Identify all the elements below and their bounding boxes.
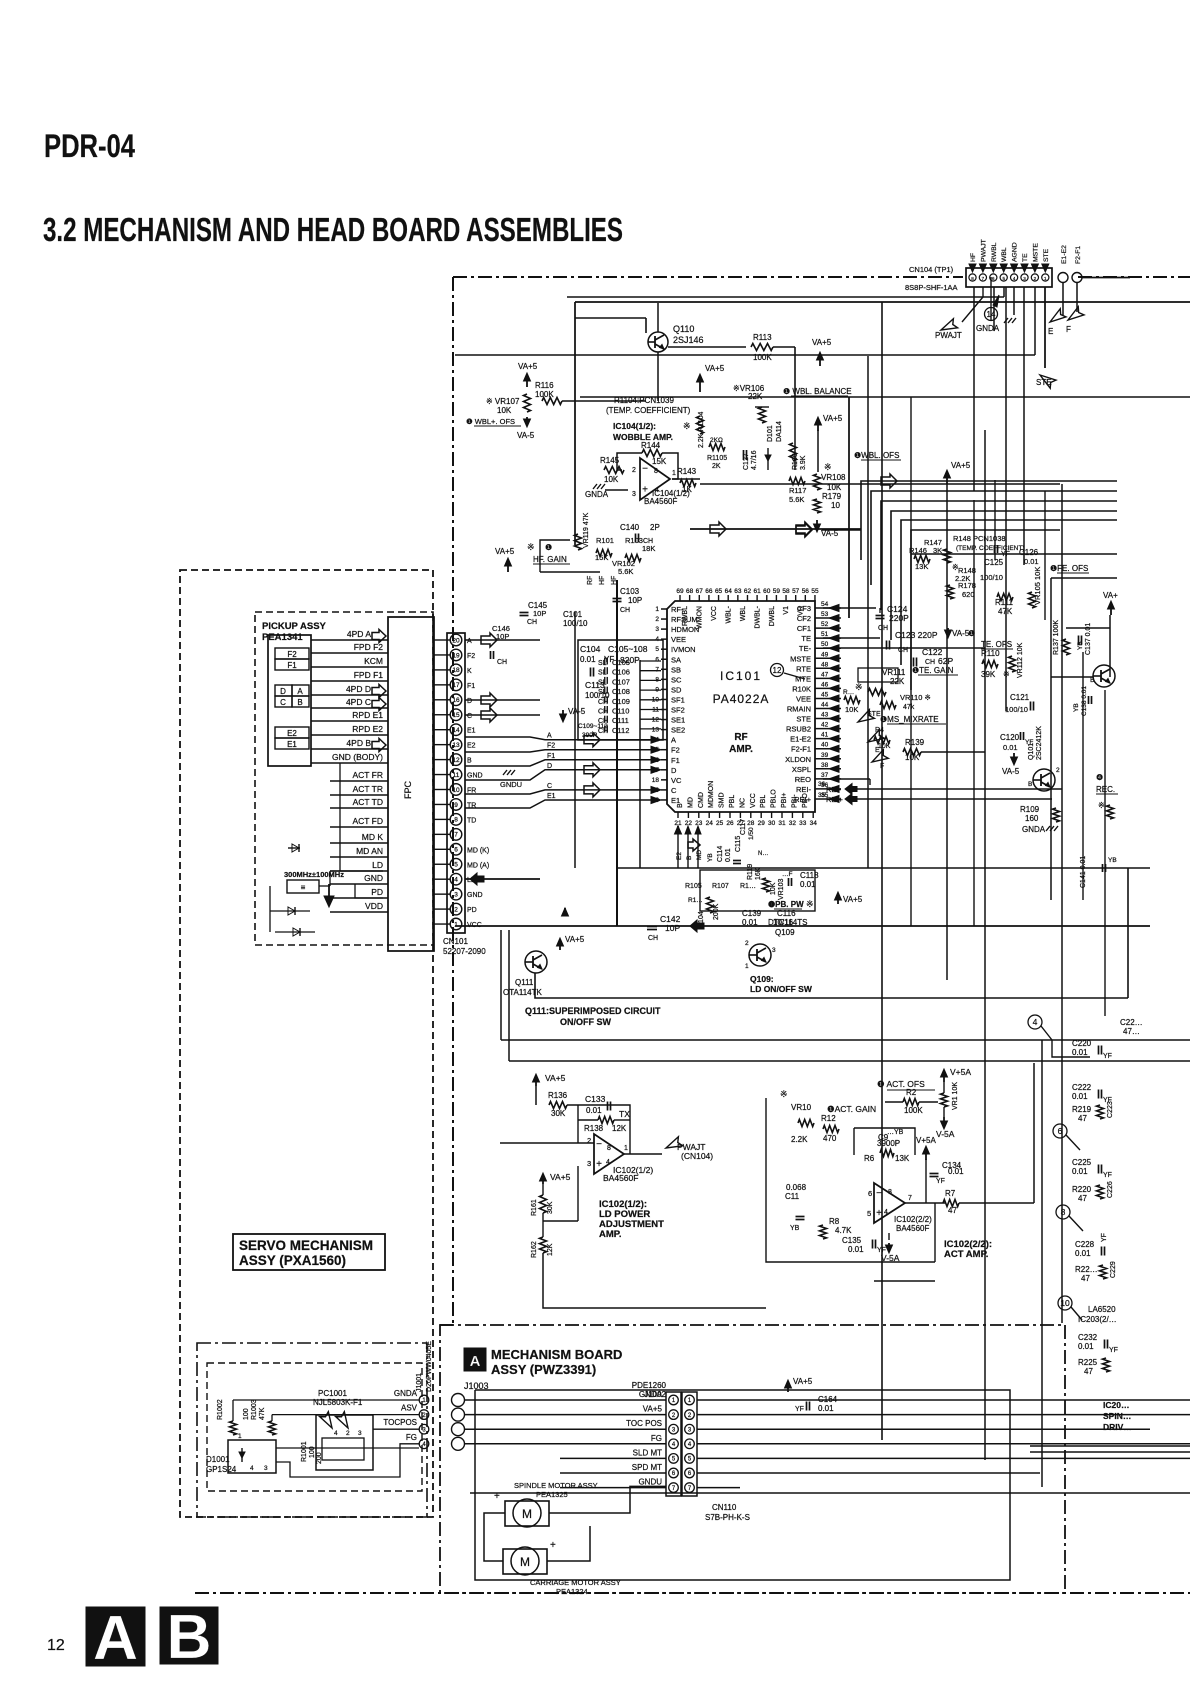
connector CN101 pin 4 circle bbox=[450, 873, 462, 885]
svg-text:64: 64 bbox=[725, 588, 733, 595]
svg-text:C111: C111 bbox=[612, 716, 629, 725]
pin 7 SB (IC101 left) bbox=[661, 668, 667, 670]
svg-text:C140: C140 bbox=[620, 523, 640, 532]
servo inner dash-dot box (opto area) bbox=[197, 1343, 427, 1517]
svg-text:56: 56 bbox=[802, 588, 810, 595]
svg-text:0.01: 0.01 bbox=[580, 655, 596, 664]
connector J1002 pin 7 circle col1 bbox=[669, 1483, 679, 1493]
svg-text:10K: 10K bbox=[770, 882, 777, 895]
transistor Q102 right bbox=[1093, 665, 1115, 687]
svg-text:R110: R110 bbox=[981, 649, 1000, 658]
svg-text:❶ WBL+. OFS: ❶ WBL+. OFS bbox=[466, 417, 515, 426]
svg-text:C116: C116 bbox=[777, 909, 796, 918]
marker B black box bbox=[160, 1607, 218, 1664]
svg-text:F2: F2 bbox=[547, 743, 555, 750]
svg-text:B: B bbox=[1028, 781, 1032, 788]
vertical bus x1045b bbox=[1044, 491, 1046, 620]
FPC box bbox=[388, 617, 434, 951]
svg-text:NC: NC bbox=[739, 798, 746, 808]
wire FPC to CN101 pin 7 bbox=[434, 833, 450, 835]
svg-text:F2: F2 bbox=[287, 650, 297, 659]
svg-text:R225: R225 bbox=[1078, 1358, 1098, 1367]
svg-text:A: A bbox=[547, 733, 552, 740]
svg-text:13: 13 bbox=[652, 727, 660, 734]
svg-text:0.01: 0.01 bbox=[1003, 743, 1018, 752]
svg-text:+: + bbox=[550, 1540, 556, 1551]
svg-text:14: 14 bbox=[452, 727, 460, 734]
svg-text:R138: R138 bbox=[584, 1124, 604, 1133]
svg-text:R179: R179 bbox=[822, 492, 842, 501]
resistor cluster R105 R107 R108 bbox=[689, 929, 691, 931]
vertical bus x1042 bbox=[1041, 1040, 1043, 1487]
svg-text:PA4022A: PA4022A bbox=[713, 692, 770, 706]
svg-text:R148 PCN1038: R148 PCN1038 bbox=[953, 534, 1006, 543]
svg-text:R162: R162 bbox=[531, 1241, 538, 1258]
connector CN104 pin 7 circle bbox=[979, 274, 986, 281]
svg-text:18: 18 bbox=[652, 777, 660, 784]
pin 17 D (IC101 left) bbox=[661, 769, 667, 771]
resistor R137 vertical bbox=[1063, 639, 1070, 655]
connector CN104 pin 2 circle bbox=[1031, 274, 1038, 281]
optocoupler D1001 box bbox=[228, 1440, 276, 1473]
svg-text:1/50: 1/50 bbox=[748, 827, 755, 840]
svg-text:7: 7 bbox=[655, 666, 659, 673]
svg-text:VA+5: VA+5 bbox=[565, 935, 585, 944]
pin 18 VC (IC101 left) bbox=[661, 779, 667, 781]
connector CN104 pin 6 test point triangle bbox=[990, 264, 997, 272]
svg-text:10P: 10P bbox=[665, 923, 680, 933]
svg-text:BA4560F: BA4560F bbox=[644, 497, 677, 506]
svg-text:12: 12 bbox=[773, 666, 782, 675]
svg-text:B: B bbox=[1090, 677, 1095, 684]
pin 16 F1 (IC101 left) bbox=[661, 759, 667, 761]
svg-text:12: 12 bbox=[47, 1637, 65, 1654]
svg-text:11: 11 bbox=[453, 772, 460, 779]
svg-text:※: ※ bbox=[780, 1089, 788, 1099]
svg-text:45: 45 bbox=[821, 691, 829, 698]
svg-text:−: − bbox=[596, 1139, 602, 1150]
caps block outline bbox=[578, 640, 663, 740]
svg-text:ASV: ASV bbox=[401, 1404, 418, 1413]
svg-text:J1003: J1003 bbox=[464, 1381, 489, 1391]
wire CN104 pin6 down bbox=[993, 287, 995, 331]
svg-text:R144: R144 bbox=[641, 441, 661, 450]
svg-text:5: 5 bbox=[655, 646, 659, 653]
power VA+5 up arrow x565 bbox=[564, 908, 566, 912]
svg-text:R161: R161 bbox=[531, 1199, 538, 1216]
svg-text:PWAJT: PWAJT bbox=[935, 331, 962, 340]
svg-text:20: 20 bbox=[452, 637, 460, 644]
svg-text:48: 48 bbox=[821, 661, 829, 668]
wire act box bbox=[766, 1098, 935, 1262]
svg-text:53: 53 bbox=[821, 611, 829, 618]
svg-text:R220: R220 bbox=[1072, 1185, 1092, 1194]
FE sub-box corner bbox=[1051, 577, 1117, 579]
svg-text:F2: F2 bbox=[467, 653, 475, 660]
connector J1002 pin 5 circle col1 bbox=[669, 1454, 679, 1464]
svg-text:59: 59 bbox=[773, 588, 781, 595]
servo inner dashed box (opto area) bbox=[207, 1363, 422, 1491]
power V+5A arrow bbox=[943, 1073, 945, 1082]
svg-text:C11: C11 bbox=[785, 1192, 800, 1201]
open arrow pin16 D bbox=[465, 699, 540, 701]
vertical bus x575 bbox=[574, 612, 576, 868]
transistor Q101 bbox=[1033, 769, 1055, 791]
svg-text:❹: ❹ bbox=[1096, 773, 1103, 782]
svg-text:Q110: Q110 bbox=[673, 324, 694, 334]
svg-text:R1105: R1105 bbox=[707, 455, 727, 462]
svg-text:D: D bbox=[671, 766, 677, 775]
svg-text:C110: C110 bbox=[612, 707, 629, 716]
svg-text:2: 2 bbox=[454, 906, 458, 913]
svg-text:3.9K: 3.9K bbox=[800, 455, 807, 470]
svg-text:※: ※ bbox=[527, 542, 535, 552]
svg-text:0.01: 0.01 bbox=[1078, 1342, 1094, 1351]
svg-text:C223: C223 bbox=[1107, 1101, 1114, 1118]
resistor R113 bbox=[751, 344, 773, 351]
svg-text:VR111: VR111 bbox=[882, 668, 906, 677]
svg-text:C113: C113 bbox=[585, 680, 605, 690]
wire FPC to CN101 pin 10 bbox=[434, 789, 450, 791]
connector CN104 aux circle E1-E2 bbox=[1058, 273, 1068, 283]
svg-text:MD (K): MD (K) bbox=[467, 847, 489, 854]
connector J1001 pin 3 circle bbox=[419, 1424, 429, 1434]
connector CN101 pin 8 circle bbox=[450, 814, 462, 826]
opto arrows bbox=[320, 1412, 337, 1431]
wire pickup signal KCM bbox=[311, 666, 388, 668]
svg-text:GND: GND bbox=[467, 773, 483, 780]
open arrow on 4PD C bbox=[372, 698, 386, 711]
vertical bus x882 bbox=[881, 302, 883, 1440]
svg-text:34: 34 bbox=[810, 820, 818, 827]
svg-text:D: D bbox=[547, 763, 552, 770]
svg-text:62: 62 bbox=[744, 588, 752, 595]
connector J1002 pin 4 circle col2 bbox=[685, 1439, 695, 1449]
wire pickup signal ACT TR bbox=[330, 794, 388, 796]
wire long y1061 bbox=[508, 930, 510, 1061]
svg-text:42: 42 bbox=[821, 722, 829, 729]
svg-text:YB: YB bbox=[1073, 703, 1080, 712]
node 14 circle bbox=[985, 308, 998, 321]
svg-text:GNDA: GNDA bbox=[585, 490, 609, 499]
svg-text:35: 35 bbox=[818, 792, 826, 799]
svg-text:+: + bbox=[876, 1208, 882, 1219]
svg-text:19: 19 bbox=[452, 652, 460, 659]
pin 67 (IC101 top) bbox=[698, 595, 700, 601]
svg-text:61: 61 bbox=[754, 588, 762, 595]
photodiode table E2/E1 bbox=[275, 727, 309, 738]
vertical bus x868 bbox=[867, 356, 869, 868]
svg-text:S7B-PH-K-S: S7B-PH-K-S bbox=[705, 1513, 750, 1522]
power VA+5 arrow (right of D101) bbox=[819, 356, 821, 366]
svg-text:GNDA: GNDA bbox=[639, 1390, 663, 1399]
svg-text:5: 5 bbox=[454, 862, 458, 869]
pin 1 RF- (IC101 left) bbox=[661, 608, 667, 610]
servo mechanism assy dashed box bbox=[180, 570, 433, 1517]
svg-text:33: 33 bbox=[799, 820, 807, 827]
svg-text:3: 3 bbox=[264, 1465, 268, 1472]
connector CN104 pin 8 test point triangle bbox=[969, 264, 976, 272]
svg-text:C220: C220 bbox=[1072, 1039, 1092, 1048]
connector CN104 pin 2 test point triangle bbox=[1031, 264, 1038, 272]
svg-text:13K: 13K bbox=[895, 1154, 910, 1163]
resistor R143 bbox=[680, 480, 696, 487]
svg-text:※: ※ bbox=[855, 682, 863, 692]
svg-text:N…: N… bbox=[758, 851, 768, 857]
connector CN101 pin 13 circle bbox=[450, 739, 462, 751]
photodiode table F2/F1 bbox=[275, 648, 309, 659]
svg-text:R2: R2 bbox=[906, 1088, 917, 1097]
svg-text:※: ※ bbox=[1003, 670, 1010, 679]
wire FPC to CN101 pin 8 bbox=[434, 818, 450, 820]
svg-text:C109~112: C109~112 bbox=[578, 723, 608, 730]
pin 51 TE (IC101 right) bbox=[815, 637, 841, 639]
svg-text:13: 13 bbox=[452, 742, 460, 749]
svg-text:2SJ146: 2SJ146 bbox=[673, 335, 704, 345]
pickup internal wires bbox=[340, 763, 383, 871]
connector J1002 pin 1 circle col1 bbox=[669, 1395, 679, 1405]
svg-text:Q111:SUPERIMPOSED CIRCUIT: Q111:SUPERIMPOSED CIRCUIT bbox=[525, 1006, 661, 1016]
svg-text:GND (BODY): GND (BODY) bbox=[332, 752, 383, 762]
svg-text:R116: R116 bbox=[535, 381, 554, 390]
solid down arrow pickup bbox=[328, 884, 330, 898]
wire FPC to CN101 pin 12 bbox=[434, 759, 450, 761]
svg-text:※: ※ bbox=[683, 421, 691, 431]
pin 22 (IC101 bottom) bbox=[687, 812, 689, 818]
svg-text:VR105 10K: VR105 10K bbox=[1033, 567, 1042, 605]
svg-text:V+5A: V+5A bbox=[950, 1067, 971, 1077]
wires J1002 right bbox=[697, 1399, 1190, 1401]
connector J1002 box col2 bbox=[682, 1392, 697, 1496]
mechanism inner solid box bbox=[475, 1390, 1010, 1580]
svg-text:SLD MT: SLD MT bbox=[633, 1448, 662, 1457]
svg-text:VA+5: VA+5 bbox=[518, 362, 538, 371]
wire pickup signal MD AN bbox=[330, 856, 388, 858]
connector J1002 pin 4 circle col1 bbox=[669, 1439, 679, 1449]
connector CN104 pin 5 circle bbox=[1000, 274, 1007, 281]
node PWAJT open arrow bbox=[939, 319, 958, 335]
svg-text:C120: C120 bbox=[1000, 733, 1020, 742]
pin 31 (IC101 bottom) bbox=[781, 812, 783, 818]
svg-text:C106: C106 bbox=[612, 668, 630, 677]
pin 42 RSUB2 (IC101 right) bbox=[815, 728, 841, 730]
svg-text:SB: SB bbox=[671, 665, 681, 674]
wire mech row VA+5 bbox=[465, 1414, 666, 1416]
connector CN101 pin 9 circle bbox=[450, 799, 462, 811]
svg-text:200: 200 bbox=[316, 1452, 323, 1464]
svg-text:IC102(2/2): IC102(2/2) bbox=[894, 1215, 932, 1224]
svg-text:VR110 ※: VR110 ※ bbox=[900, 693, 931, 702]
svg-text:0.01: 0.01 bbox=[1072, 1092, 1088, 1101]
wire pickup signal FPD F1 bbox=[311, 680, 388, 682]
svg-text:C108: C108 bbox=[612, 687, 630, 696]
svg-text:CN104 (TP1): CN104 (TP1) bbox=[909, 265, 954, 274]
wire FPC to CN101 pin 14 bbox=[434, 729, 450, 731]
vertical bus x1062 bbox=[1061, 484, 1063, 1323]
power VA+5 arrow (wobble) bbox=[699, 378, 701, 392]
svg-text:C138 0.01: C138 0.01 bbox=[1081, 686, 1088, 716]
svg-text:VA+5: VA+5 bbox=[495, 547, 515, 556]
connector J1002 pin 2 circle col1 bbox=[669, 1410, 679, 1420]
svg-text:❶TE. GAIN: ❶TE. GAIN bbox=[912, 666, 954, 675]
svg-text:ASSY (PWZ3391): ASSY (PWZ3391) bbox=[491, 1362, 596, 1377]
svg-text:R117: R117 bbox=[789, 486, 806, 495]
connector CN101 pin 15 circle bbox=[450, 709, 462, 721]
connector CN101 pin 14 circle bbox=[450, 724, 462, 736]
wire FPC to CN101 pin 6 bbox=[434, 848, 450, 850]
svg-text:Q101: Q101 bbox=[1028, 743, 1035, 760]
pin 56 (IC101 top) bbox=[804, 595, 806, 601]
svg-text:SE1: SE1 bbox=[671, 716, 685, 725]
svg-text:VEE: VEE bbox=[671, 635, 686, 644]
svg-text:PDE1260: PDE1260 bbox=[632, 1381, 667, 1390]
svg-text:F2-F1: F2-F1 bbox=[1075, 246, 1082, 264]
svg-text:R109: R109 bbox=[1020, 805, 1040, 814]
svg-text:4: 4 bbox=[884, 1209, 888, 1216]
svg-text:1: 1 bbox=[745, 963, 749, 970]
pin 29 (IC101 bottom) bbox=[760, 812, 762, 818]
pin 5 IVMON (IC101 left) bbox=[661, 648, 667, 650]
wire MTE from 12 bbox=[784, 673, 805, 679]
svg-text:C105~108: C105~108 bbox=[608, 644, 648, 654]
svg-text:7: 7 bbox=[454, 832, 458, 839]
svg-text:RWBL: RWBL bbox=[991, 242, 998, 262]
svg-text:TD: TD bbox=[467, 817, 476, 824]
svg-text:FPD F2: FPD F2 bbox=[354, 642, 384, 652]
wire mech row GNDU bbox=[560, 1487, 666, 1489]
svg-text:F2: F2 bbox=[671, 746, 680, 755]
svg-text:DWBL: DWBL bbox=[769, 606, 776, 626]
connector J1002 pin 3 circle col2 bbox=[685, 1424, 695, 1434]
connector CN104 pin 4 circle bbox=[1011, 274, 1018, 281]
photo IC inner box bbox=[322, 1438, 364, 1460]
svg-text:PC1001: PC1001 bbox=[318, 1389, 347, 1398]
pin 27 (IC101 bottom) bbox=[739, 812, 741, 818]
connector CN104 pin 3 circle bbox=[1021, 274, 1028, 281]
wire mech row SPD MT bbox=[560, 1472, 666, 1474]
svg-text:FG: FG bbox=[406, 1433, 417, 1442]
svg-text:RF: RF bbox=[587, 576, 594, 585]
svg-text:17: 17 bbox=[452, 682, 460, 689]
svg-text:C109: C109 bbox=[612, 697, 630, 706]
svg-text:40: 40 bbox=[821, 742, 829, 749]
wire box left down bbox=[574, 302, 576, 480]
svg-text:C228: C228 bbox=[1075, 1240, 1095, 1249]
svg-text:18: 18 bbox=[452, 667, 460, 674]
svg-text:15: 15 bbox=[452, 712, 460, 719]
power VA-5 arrow (VR107) bbox=[526, 417, 528, 423]
svg-text:A: A bbox=[467, 638, 472, 645]
pin 25 (IC101 bottom) bbox=[719, 812, 721, 818]
wire pickup signal 4PD A bbox=[311, 639, 388, 641]
svg-text:62P: 62P bbox=[938, 656, 953, 666]
svg-text:2KΩ: 2KΩ bbox=[710, 437, 723, 444]
wire RSUB2 long right bbox=[921, 751, 985, 753]
pin 2 RFSUM (IC101 left) bbox=[661, 618, 667, 620]
connector J1002 pin 2 circle col2 bbox=[685, 1410, 695, 1420]
svg-text:GP1S24: GP1S24 bbox=[206, 1465, 237, 1474]
svg-text:10K: 10K bbox=[604, 475, 619, 484]
svg-text:C: C bbox=[280, 698, 286, 707]
wire pickup signal ACT TD bbox=[330, 807, 388, 809]
svg-text:…F: …F bbox=[782, 871, 793, 878]
svg-text:30K: 30K bbox=[551, 1109, 566, 1118]
svg-text:2P: 2P bbox=[650, 523, 660, 532]
svg-text:SA: SA bbox=[671, 655, 681, 664]
head board assy dash-dot border left bbox=[452, 277, 454, 1325]
wire Q109 box bbox=[535, 973, 1128, 998]
svg-text:+: + bbox=[596, 1159, 602, 1170]
svg-text:RPD E2: RPD E2 bbox=[352, 724, 383, 734]
svg-text:V1: V1 bbox=[783, 606, 790, 615]
svg-text:F2-F1: F2-F1 bbox=[791, 745, 811, 754]
open arrow pin20 A bbox=[465, 639, 540, 641]
svg-text:E1: E1 bbox=[547, 793, 556, 800]
wire E1-E2 circle down bbox=[1062, 283, 1064, 315]
svg-text:C114: C114 bbox=[717, 846, 724, 862]
svg-text:VC: VC bbox=[671, 776, 682, 785]
svg-text:C104: C104 bbox=[580, 644, 601, 654]
svg-text:VCC: VCC bbox=[750, 793, 757, 808]
svg-text:XSPL: XSPL bbox=[792, 765, 811, 774]
svg-text:STE: STE bbox=[1043, 248, 1050, 262]
connector CN101 pin 12 circle bbox=[450, 754, 462, 766]
ground GNDA at opamp bbox=[593, 484, 597, 489]
wire feedback loop bbox=[617, 453, 642, 470]
svg-text:1: 1 bbox=[672, 470, 676, 477]
connector CN104 pin 4 test point triangle bbox=[1011, 264, 1018, 272]
svg-text:≡: ≡ bbox=[301, 883, 306, 892]
svg-text:※: ※ bbox=[806, 899, 814, 909]
horizontal bundle y491 staircase bbox=[871, 491, 1117, 585]
svg-text:Q111: Q111 bbox=[515, 978, 534, 987]
svg-text:❶MS_MIXRATE: ❶MS_MIXRATE bbox=[880, 715, 939, 724]
svg-text:❶PB. PW: ❶PB. PW bbox=[768, 900, 804, 909]
resistor R144 feedback bbox=[642, 450, 662, 457]
svg-text:IC20…: IC20… bbox=[1103, 1400, 1129, 1410]
wire bottom pin arrow B bbox=[687, 832, 689, 868]
pin 19 C (IC101 left) bbox=[661, 789, 667, 791]
svg-text:18K: 18K bbox=[642, 544, 655, 553]
svg-text:2: 2 bbox=[632, 467, 636, 474]
resistor R116 bbox=[542, 398, 562, 405]
wire bottom pin arrow MD bbox=[697, 832, 699, 868]
wire R113 right down bbox=[773, 346, 795, 348]
svg-text:IC104(1/2):: IC104(1/2): bbox=[613, 421, 656, 431]
svg-text:GNDA: GNDA bbox=[1022, 825, 1046, 834]
svg-text:STE: STE bbox=[1036, 378, 1052, 387]
svg-text:100K: 100K bbox=[535, 390, 554, 399]
svg-text:R103: R103 bbox=[625, 536, 643, 545]
svg-text:4PD B: 4PD B bbox=[346, 738, 371, 748]
svg-text:※ VR107: ※ VR107 bbox=[486, 397, 520, 406]
marker A black box bbox=[86, 1607, 145, 1666]
svg-text:+: + bbox=[642, 485, 648, 496]
vertical bus x1105 bbox=[1104, 690, 1106, 1016]
svg-text:R139: R139 bbox=[905, 738, 925, 747]
connector CN104 pin 1 test point triangle bbox=[1042, 264, 1049, 272]
power VA+5 (C164) bbox=[787, 1384, 789, 1392]
svg-text:GNDU: GNDU bbox=[638, 1478, 662, 1487]
svg-text:F1: F1 bbox=[671, 756, 680, 765]
pin 3 HDMON (IC101 left) bbox=[661, 628, 667, 630]
wire TE- long bbox=[823, 647, 985, 649]
svg-text:DA114: DA114 bbox=[776, 421, 783, 442]
svg-text:39K: 39K bbox=[981, 670, 996, 679]
wire right col boxes bbox=[1052, 1040, 1090, 1057]
svg-text:VA-5: VA-5 bbox=[568, 707, 586, 716]
pin 46 R10K (IC101 right) bbox=[815, 687, 841, 689]
